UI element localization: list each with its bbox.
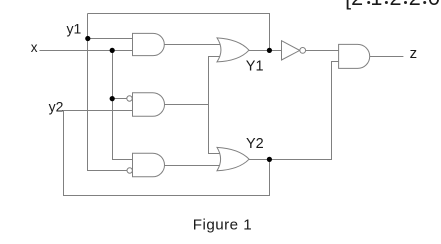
wire: OR2 output across and up to AND4 bottom input xyxy=(249,62,339,160)
header separator dot 1 xyxy=(367,1,370,4)
node x junction at AND2 stub xyxy=(110,96,115,101)
wire: z output xyxy=(370,56,404,58)
svg-text:y1: y1 xyxy=(67,21,82,37)
wire: y1 node to AND1 top input xyxy=(88,38,133,40)
wire: x vertical bus down to AND3 top input xyxy=(113,51,133,160)
header separator dot 3 xyxy=(404,1,407,4)
wire: OR1 output to inverter xyxy=(249,50,282,52)
node Y1 junction xyxy=(267,48,272,53)
node y1 junction xyxy=(85,36,90,41)
OR gate 2 (output Y2) xyxy=(217,147,249,170)
svg-text:x: x xyxy=(31,40,38,55)
svg-text:Figure 1: Figure 1 xyxy=(193,217,252,234)
wire: AND1 output to OR1 top input xyxy=(165,44,221,46)
node Y2 junction xyxy=(267,157,272,162)
wire: x stub to AND2 bubble input xyxy=(113,98,128,100)
inverter U1 triangle xyxy=(282,41,300,60)
wire: Y2 feedback (bottom horizontal back up to y2) xyxy=(64,111,270,196)
inverter bubble on AND gate 2 top input xyxy=(127,96,132,101)
node x junction on input line xyxy=(110,48,115,53)
wire: shared vertical feeding OR1 bottom and OR2 top inputs xyxy=(209,57,221,154)
OR gate 1 (output Y1) xyxy=(217,38,249,62)
inverter bubble on AND gate 3 bottom input xyxy=(127,168,132,173)
svg-text:Y1: Y1 xyxy=(246,59,264,75)
inverter U1 output bubble xyxy=(300,48,306,54)
svg-text:z: z xyxy=(410,45,418,62)
header separator dot 4 xyxy=(423,1,426,4)
wire: AND3 output to OR2 bottom input xyxy=(165,165,221,167)
wire: inverter output to AND4 top input xyxy=(306,50,339,52)
AND gate 2 (inputs x inverted, y2) xyxy=(133,93,165,117)
AND gate 4 (output z) xyxy=(339,44,370,68)
wire: Y1 feedback (top horizontal from Y1 node back to y1) xyxy=(88,14,270,51)
wire: y1 vertical bus down to AND3 bubble input xyxy=(88,14,128,171)
wire: AND2 output xyxy=(165,104,209,106)
AND gate 3 (inputs x, y1 inverted) xyxy=(133,153,165,177)
AND gate 1 (inputs y1, x) xyxy=(133,33,165,55)
svg-text:Y2: Y2 xyxy=(246,136,264,152)
header separator dot 2 xyxy=(385,1,388,4)
svg-text:y2: y2 xyxy=(49,99,64,115)
wire: y2 input line to AND2 bottom input xyxy=(62,110,133,112)
wire: x input line xyxy=(40,50,133,52)
